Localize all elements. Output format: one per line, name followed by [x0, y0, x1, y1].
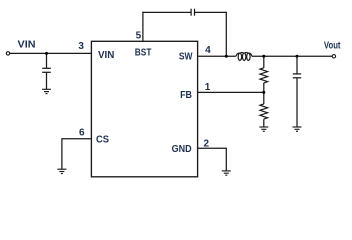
svg-text:1: 1 [205, 82, 211, 93]
svg-text:4: 4 [205, 45, 211, 56]
svg-text:CS: CS [96, 135, 109, 146]
svg-text:3: 3 [78, 41, 84, 52]
svg-text:5: 5 [136, 31, 142, 42]
svg-text:BST: BST [135, 47, 152, 58]
svg-text:VIN: VIN [18, 40, 36, 51]
svg-text:Vout: Vout [324, 41, 341, 52]
svg-text:SW: SW [179, 51, 193, 62]
svg-text:6: 6 [79, 128, 85, 139]
svg-text:FB: FB [180, 90, 192, 101]
svg-text:VIN: VIN [98, 50, 114, 61]
svg-text:2: 2 [204, 138, 210, 149]
svg-text:GND: GND [172, 144, 192, 155]
